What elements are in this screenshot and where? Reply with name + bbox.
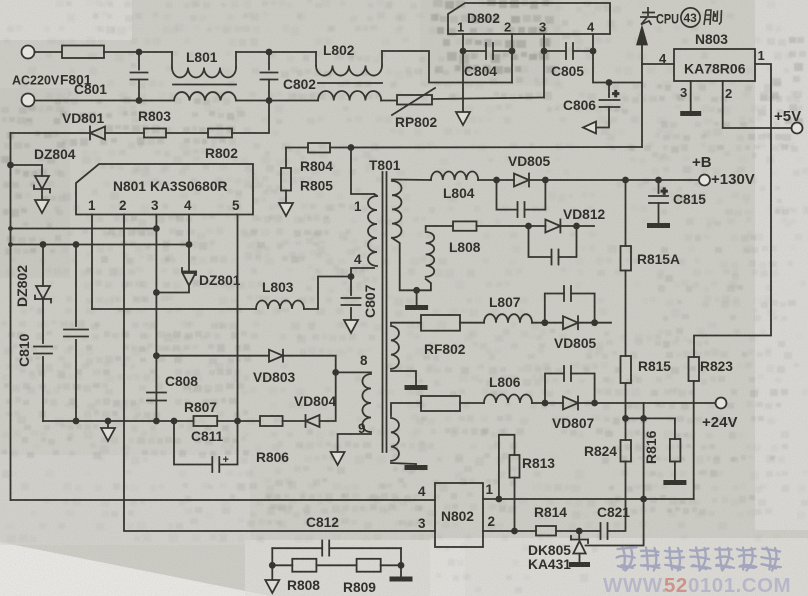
diode VD805b (563, 316, 578, 329)
ground (405, 465, 428, 470)
capacitor C806 (608, 83, 610, 98)
capacitor C801 (138, 52, 140, 70)
capacitor C802 (268, 52, 270, 70)
resistor R824 (621, 440, 632, 462)
winding secondary S2 (391, 326, 399, 369)
wire (642, 63, 674, 65)
wire pin2 D802 (511, 34, 513, 83)
wire (232, 101, 269, 134)
wire (460, 322, 484, 324)
capacitor C805 (544, 50, 566, 52)
capacitor snubber VD805 (497, 180, 518, 210)
resistor R802 (208, 129, 232, 138)
wire (283, 420, 305, 422)
node AC-N terminal (22, 94, 35, 107)
wire (236, 100, 318, 102)
node AC-L terminal (22, 46, 35, 59)
resistor R808 (292, 559, 316, 572)
wire VD803 row (156, 355, 269, 357)
capacitor C821 (600, 523, 602, 539)
fuse F801 (62, 46, 104, 59)
ground (680, 111, 701, 116)
diode-block D802 (448, 3, 610, 34)
capacitor C811 (174, 421, 212, 465)
wire (460, 402, 484, 404)
wire (556, 530, 601, 532)
diode VD812 (545, 220, 560, 233)
zener DZ802 (42, 245, 44, 287)
wire pin1 row N802 (483, 498, 694, 500)
inductor L806 (484, 395, 532, 404)
capacitor C815 (658, 180, 660, 193)
arrow to CPU pin 43 (637, 28, 647, 45)
wire (35, 51, 63, 53)
wire divider rail (626, 417, 675, 419)
wire (43, 420, 194, 422)
shunt-reg DK805 KA431 (578, 531, 580, 540)
wire (236, 51, 316, 53)
inductor L801 (171, 52, 173, 68)
ground (279, 203, 293, 216)
wire (477, 225, 546, 227)
wire pin3 N801 (155, 215, 157, 422)
zener DZ804 (11, 165, 43, 176)
wire +B rail (529, 179, 700, 181)
diode VD803 (269, 350, 283, 362)
wire (304, 277, 351, 310)
wire (560, 225, 594, 227)
wire (578, 322, 611, 324)
capacitor filter (75, 245, 77, 327)
wire (320, 372, 336, 421)
wire (11, 244, 190, 246)
wire (381, 564, 401, 566)
posistor RP802 (397, 95, 432, 105)
ground (265, 580, 279, 593)
ground (569, 562, 590, 567)
resistor R815A (625, 180, 627, 246)
resistor R815 (621, 356, 632, 383)
diode VD801 (90, 127, 105, 140)
inductor L803 (256, 301, 304, 310)
wire (166, 132, 208, 134)
ground (405, 385, 428, 390)
ground (462, 98, 464, 113)
wire pin4 row N802 (11, 499, 436, 501)
capacitor C807 (350, 277, 352, 296)
ground (663, 480, 686, 485)
label jiao glyph (704, 10, 722, 25)
winding secondary S3 (391, 418, 399, 461)
fusible resistor RF802 (421, 315, 460, 331)
resistor R806 (260, 416, 283, 426)
wire (217, 420, 260, 422)
resistor R804 (308, 143, 330, 153)
winding primary 1-4 (368, 196, 377, 266)
off-page arrow (583, 122, 596, 134)
wire (11, 228, 157, 230)
wire (105, 132, 144, 134)
fusible resistor L808f (453, 221, 477, 230)
resistor R803 (144, 129, 166, 138)
core of L802 (318, 82, 382, 84)
wire (272, 564, 292, 566)
wire (10, 133, 12, 500)
resistor R807 (194, 416, 218, 426)
zener DZ801 (182, 271, 196, 273)
ground (331, 452, 345, 465)
core of L801 (173, 84, 236, 86)
wire +24V row (578, 402, 716, 404)
transformer T801 core (382, 172, 384, 452)
wire pin2 N801 (124, 215, 435, 532)
diode VD807 (563, 397, 578, 410)
resistor R814 (536, 526, 556, 536)
inductor L808 (426, 232, 435, 277)
wire pin2 N803 (723, 81, 792, 128)
label circled 43 (681, 8, 700, 27)
ground (390, 577, 413, 582)
wire pin5 N801 (237, 215, 239, 422)
resistor R823 (689, 357, 700, 381)
capacitor snubber VD812 (529, 226, 552, 257)
wire (432, 98, 544, 100)
wire feedback link (586, 403, 644, 546)
wire (284, 356, 336, 373)
watermark jiadian script (617, 547, 781, 570)
ground (107, 421, 109, 428)
resistor R816 (674, 418, 676, 439)
wire (478, 179, 514, 181)
inductor L807 (484, 314, 532, 323)
wire pin1 D802 (462, 34, 464, 98)
wire pin3 D802 (543, 34, 545, 98)
inductor L804 (431, 172, 478, 181)
ground (344, 320, 358, 333)
wire to CPU (641, 44, 643, 147)
wire (11, 132, 91, 134)
winding secondary S1 (392, 181, 402, 238)
resistor R809 (357, 559, 381, 572)
node +5V terminal (792, 123, 803, 134)
capacitor snubber VD805b (545, 294, 564, 323)
ground (416, 290, 418, 305)
wire (271, 548, 273, 580)
wire pin1 N803 (694, 64, 771, 357)
wire (330, 146, 642, 149)
wire pin2 row N802 (483, 530, 536, 532)
inductor L802 (315, 52, 317, 66)
ground (647, 223, 670, 228)
capacitor C810 (42, 300, 44, 344)
wire Vcc row (286, 147, 308, 149)
wire pin3 N803 (690, 81, 692, 111)
wire (382, 51, 512, 83)
op-amp N801 KA3S0680R (76, 164, 253, 215)
wire (351, 148, 374, 195)
optocoupler N802 (435, 483, 483, 547)
wire pin4 N801 (188, 215, 190, 272)
label to-CPU text (640, 7, 657, 25)
capacitor C804 (463, 50, 486, 52)
resistor R813 (499, 435, 515, 499)
wire (104, 51, 172, 53)
wire (532, 402, 563, 404)
winding primary 8-9 (336, 371, 371, 373)
resistor R805 (285, 148, 287, 169)
fusible resistor L806f (421, 396, 460, 411)
node +130V terminal (699, 175, 710, 186)
wire (532, 322, 563, 324)
wire pin1 N801 (91, 215, 93, 310)
wire pin4 D802 (593, 34, 642, 83)
diode VD805 (514, 174, 529, 187)
node +24V terminal (716, 398, 727, 409)
capacitor C808 (147, 392, 166, 394)
wire pin1 row (92, 308, 256, 310)
diode VD804 (306, 415, 320, 427)
regulator N803 KA78R06 (674, 49, 755, 81)
capacitor snubber VD807 (545, 374, 564, 404)
wire (35, 100, 175, 102)
capacitor C812 (272, 547, 322, 549)
wire (156, 286, 189, 293)
ground (41, 190, 43, 201)
wire (316, 564, 356, 566)
